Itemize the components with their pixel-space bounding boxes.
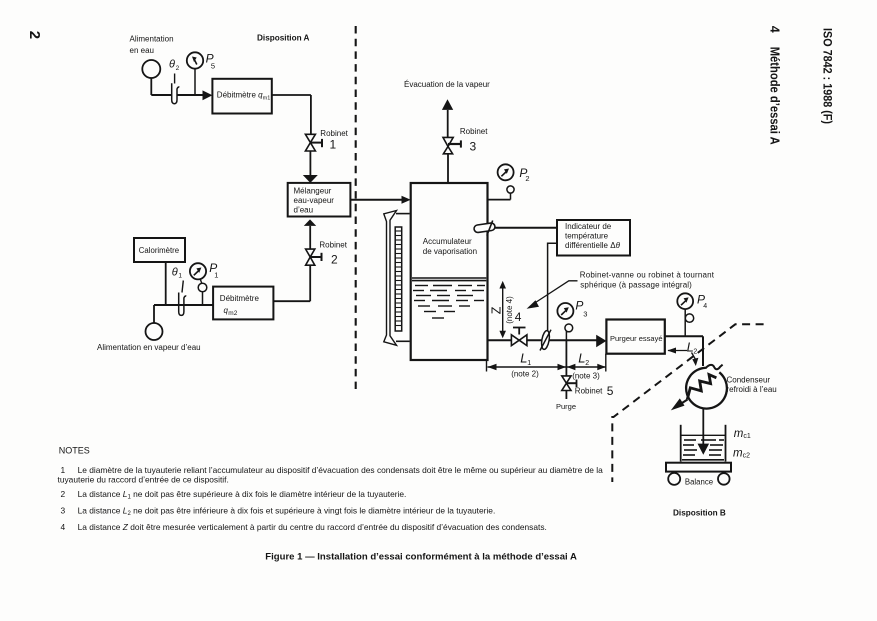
svg-text:1: 1: [178, 272, 182, 279]
svg-text:3: 3: [61, 506, 66, 516]
svg-text:Condenseur: Condenseur: [727, 375, 771, 384]
svg-text:4: 4: [61, 522, 66, 532]
svg-text:(note 3): (note 3): [572, 371, 600, 380]
svg-text:en eau: en eau: [130, 46, 154, 55]
svg-text:c2: c2: [743, 453, 751, 460]
svg-text:2: 2: [693, 349, 697, 356]
svg-text:ISO 7842 : 1988 (F): ISO 7842 : 1988 (F): [821, 28, 835, 124]
svg-text:tuyauterie du raccord d’entrée: tuyauterie du raccord d’entrée de ce dis…: [58, 474, 229, 484]
svg-text:m: m: [733, 448, 743, 460]
svg-text:θ: θ: [169, 59, 175, 71]
svg-text:sphérique (à passage intégral): sphérique (à passage intégral): [580, 281, 692, 290]
svg-text:Alimentation en vapeur d’eau: Alimentation en vapeur d’eau: [97, 343, 201, 352]
svg-text:5: 5: [607, 384, 614, 398]
svg-text:θ: θ: [172, 266, 178, 278]
svg-text:1: 1: [214, 271, 218, 280]
svg-text:La distance L2 ne doit pas êtr: La distance L2 ne doit pas être inférieu…: [78, 506, 496, 518]
svg-text:Robinet: Robinet: [575, 387, 603, 396]
svg-text:Robinet-vanne ou robinet à tou: Robinet-vanne ou robinet à tournant: [580, 270, 715, 279]
svg-text:Disposition B: Disposition B: [673, 508, 726, 517]
svg-text:5: 5: [211, 61, 215, 70]
svg-text:3: 3: [470, 140, 477, 154]
svg-text:2: 2: [585, 360, 589, 367]
svg-text:Figure 1 — Installation d’essa: Figure 1 — Installation d’essai conformé…: [265, 551, 577, 562]
svg-text:Robinet: Robinet: [319, 241, 347, 250]
svg-text:Mélangeur: Mélangeur: [294, 186, 332, 195]
svg-text:d’eau: d’eau: [294, 205, 314, 214]
svg-text:P: P: [575, 299, 583, 313]
svg-text:2: 2: [525, 174, 529, 183]
svg-text:température: température: [565, 231, 609, 240]
svg-text:Z: Z: [489, 306, 503, 314]
svg-text:Débitmètre: Débitmètre: [220, 294, 260, 303]
svg-text:m2: m2: [228, 310, 237, 317]
svg-text:3: 3: [583, 310, 587, 319]
svg-text:2: 2: [61, 489, 66, 499]
svg-text:de vaporisation: de vaporisation: [423, 247, 477, 256]
svg-text:1: 1: [527, 360, 531, 367]
svg-text:2: 2: [176, 65, 180, 72]
svg-text:Purge: Purge: [556, 402, 576, 411]
svg-text:m: m: [734, 428, 744, 440]
svg-text:Calorimètre: Calorimètre: [139, 246, 179, 255]
svg-text:Méthode d’essai A: Méthode d’essai A: [768, 47, 782, 145]
svg-text:Accumulateur: Accumulateur: [423, 237, 472, 246]
svg-text:4: 4: [768, 26, 782, 33]
svg-text:(note 2): (note 2): [511, 369, 539, 378]
svg-text:Alimentation: Alimentation: [130, 35, 174, 44]
svg-text:différentielle Δθ: différentielle Δθ: [565, 241, 621, 250]
svg-text:4: 4: [703, 303, 707, 310]
svg-text:La distance L1 ne doit pas êtr: La distance L1 ne doit pas être supérieu…: [78, 489, 407, 501]
svg-text:Évacuation de la vapeur: Évacuation de la vapeur: [404, 80, 490, 89]
svg-text:eau-vapeur: eau-vapeur: [294, 196, 335, 205]
svg-text:Robinet: Robinet: [460, 127, 488, 136]
svg-text:La distance Z doit être mesuré: La distance Z doit être mesurée vertical…: [78, 522, 547, 532]
svg-text:Disposition A: Disposition A: [257, 34, 310, 43]
svg-text:4: 4: [515, 310, 522, 324]
svg-text:2: 2: [26, 31, 43, 39]
svg-text:NOTES: NOTES: [59, 445, 90, 455]
svg-text:Indicateur de: Indicateur de: [565, 222, 612, 231]
svg-text:Purgeur essayé: Purgeur essayé: [610, 334, 663, 343]
svg-text:(note 4): (note 4): [505, 296, 514, 324]
svg-text:c1: c1: [743, 433, 751, 440]
svg-text:refroidi à l’eau: refroidi à l’eau: [727, 385, 777, 394]
svg-text:1: 1: [330, 138, 337, 152]
svg-text:Balance: Balance: [685, 478, 713, 487]
svg-text:2: 2: [331, 253, 338, 267]
